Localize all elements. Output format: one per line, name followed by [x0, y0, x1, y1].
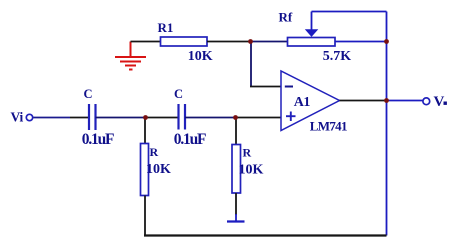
junction node N2 [384, 39, 389, 44]
svg-text:Rf: Rf [279, 10, 293, 25]
op-amp minus sign [285, 86, 293, 88]
resistor R2 (left vertical) [141, 144, 149, 196]
junction node A [143, 115, 148, 120]
wire Vi to C1 (dark part) [70, 117, 89, 119]
wire feedback top horizontal [312, 11, 387, 13]
svg-text:Vi: Vi [11, 110, 24, 125]
svg-text:R1: R1 [158, 20, 174, 35]
wire node B down to R3 [235, 118, 237, 146]
wire ground to R1 [131, 41, 162, 43]
svg-text:0.1uF: 0.1uF [174, 131, 206, 148]
junction node N1 [248, 39, 253, 44]
capacitor C1 [89, 104, 96, 130]
svg-text:R: R [243, 146, 252, 160]
svg-text:C: C [84, 87, 93, 101]
wire node A down to R2 [144, 118, 146, 145]
svg-text:LM741: LM741 [310, 119, 347, 134]
wire C1 to node A [96, 117, 146, 119]
svg-text:10K: 10K [239, 163, 264, 178]
wire node B to non-inverting input [236, 117, 282, 119]
wire R3 bottom to ground stub [235, 193, 237, 215]
terminal Vo [423, 98, 430, 105]
wire R2 bottom to bottom rail [144, 196, 146, 236]
op-amp plus sign [286, 112, 296, 122]
svg-text:5.7K: 5.7K [323, 49, 352, 64]
op-amp A1 triangle [281, 71, 340, 131]
wire R1 to node N1 [207, 41, 251, 43]
potentiometer Rf body [288, 38, 336, 47]
junction output node [384, 98, 389, 103]
wire right vertical rail [386, 12, 388, 236]
potentiometer Rf wiper arrow [305, 29, 319, 37]
wire Vi to C1 (blue part) [34, 117, 71, 119]
terminal Vi [26, 114, 32, 120]
wire wiper vertical [311, 12, 313, 30]
resistor R1 [161, 37, 208, 46]
svg-text:R: R [150, 145, 159, 159]
svg-text:10K: 10K [146, 162, 171, 177]
ground (blue bar under R3) [227, 220, 245, 222]
capacitor C2 [179, 104, 186, 130]
ground (red earth symbol, top-left) [115, 42, 146, 70]
wire node A to C2 [146, 117, 179, 119]
wire output node to Vo terminal [387, 100, 423, 102]
wire C2 to node B [185, 117, 236, 119]
svg-text:0.1uF: 0.1uF [82, 131, 114, 148]
wire node N1 to Rf left [251, 41, 289, 43]
svg-text:C: C [174, 87, 183, 101]
wire op-amp output [340, 100, 387, 102]
wire bottom rail [144, 234, 387, 236]
resistor R3 (middle vertical) [232, 145, 241, 194]
svg-text:V: V [434, 94, 445, 110]
svg-text:10K: 10K [188, 49, 213, 64]
wire inverting input horizontal [250, 86, 281, 88]
svg-text:A1: A1 [294, 95, 311, 110]
ground stub (blue) under R3 [235, 214, 237, 222]
junction node B [233, 115, 238, 120]
wire Rf right to node N2 [335, 41, 387, 43]
wire node N1 down to inverting input [250, 42, 252, 87]
label Vo subscript dot [444, 102, 447, 105]
